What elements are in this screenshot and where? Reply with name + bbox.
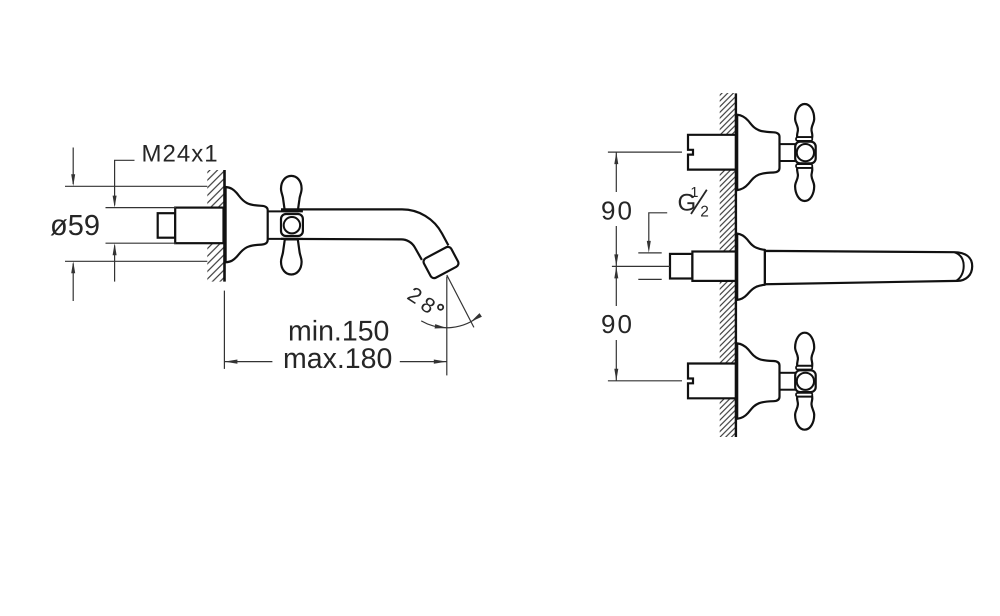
escutcheon top [737, 115, 779, 190]
pipe end left view [158, 213, 176, 238]
hub top handle [795, 142, 816, 164]
dimension M24x1 arrows [113, 160, 117, 281]
dimension 90 first line and arrows [614, 152, 618, 266]
dimension min/max line and arrows [224, 360, 446, 364]
handle top lobe left view [281, 176, 302, 211]
spout tip inner arc [955, 252, 964, 280]
hub circle top handle [797, 144, 814, 161]
stem top handle [780, 143, 796, 145]
handle stem left view [268, 211, 303, 239]
bottom handle group [688, 333, 816, 430]
bottom lobe [795, 168, 814, 201]
dimension ø59 extension lines [65, 186, 207, 261]
valve body top [688, 135, 736, 170]
handle hub circle left view [284, 217, 300, 233]
svg-text:ø59: ø59 [50, 210, 100, 242]
top lobe [795, 104, 814, 137]
wall hatch right view [720, 93, 735, 437]
handle bottom lobe left view [281, 239, 302, 274]
escutcheon left view [226, 187, 268, 262]
angle 28 arc arrows [435, 313, 482, 328]
dimension 90 ticks [608, 152, 682, 381]
spout valve body [692, 252, 735, 281]
G half leader [647, 213, 667, 253]
spout tube left view [281, 209, 448, 245]
dimension ø59 arrows [71, 148, 75, 302]
dimension 90 second line and arrows [614, 266, 618, 380]
svg-text:M24x1: M24x1 [142, 141, 219, 168]
top handle group [688, 104, 816, 201]
dimension M24x1 extension lines [106, 208, 177, 244]
spout pipe end [670, 254, 692, 279]
G half ticks [638, 253, 661, 280]
label 28deg [403, 282, 426, 309]
handle hub left view [281, 214, 303, 236]
spout bar [765, 251, 972, 284]
washer top [796, 137, 812, 141]
spout assembly right view [670, 234, 972, 300]
leader M24x1 [114, 159, 135, 161]
svg-text:90: 90 [601, 196, 634, 226]
svg-text:max.180: max.180 [283, 343, 392, 375]
valve body left view [175, 208, 223, 244]
angle 28 stream line [447, 275, 474, 327]
wall face line right view [735, 93, 737, 437]
svg-text:90: 90 [601, 309, 634, 339]
spout escutcheon right view [737, 234, 765, 300]
wall face line left view [223, 170, 226, 282]
spout nozzle left view [422, 246, 460, 280]
label G half [678, 185, 709, 221]
wall hatch left view [207, 170, 223, 282]
angle 28 arc [421, 315, 480, 328]
dimension min/max extension lines [224, 277, 446, 376]
svg-text:2: 2 [700, 204, 709, 221]
svg-text:1: 1 [690, 185, 698, 201]
